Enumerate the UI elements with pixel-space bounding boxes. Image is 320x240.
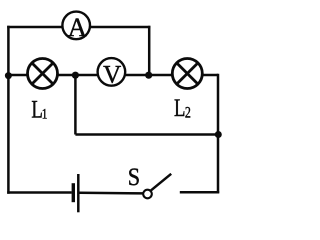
switch S: open contact circle (143, 190, 152, 199)
svg-text:S: S (128, 164, 140, 192)
wire: branch horizontal to right vertical (75, 133, 218, 136)
junction dot on right vertical (branch tie-in) (215, 131, 222, 138)
battery positive plate (long thin) (77, 174, 80, 212)
svg-text:V: V (103, 61, 121, 88)
wire: bottom left to battery (7, 191, 71, 194)
ammeter A (62, 12, 90, 42)
wire: branch vertical from node A down (74, 75, 77, 135)
lamp L1 (28, 59, 58, 89)
wire: battery to switch (80, 192, 144, 195)
node between L1 and voltmeter, junction dot (72, 72, 79, 79)
battery negative plate (short thick) (72, 183, 75, 202)
wire: right vertical down to switch (217, 74, 220, 193)
wire: switch to bottom right corner (180, 191, 219, 194)
voltmeter V (98, 58, 126, 88)
wire: row with L1, V, L2 (7, 74, 218, 77)
node between voltmeter and L2, junction dot (145, 72, 152, 79)
svg-text:A: A (68, 12, 87, 42)
lamp L2 (172, 59, 202, 89)
switch S: lever arm (151, 174, 172, 191)
node A junction dot (left wire / L1) (5, 72, 12, 79)
wire: left vertical (battery + to top) (7, 26, 10, 194)
wire: top horizontal through ammeter (7, 26, 150, 29)
wire: drop from top wire to node B (148, 26, 151, 75)
